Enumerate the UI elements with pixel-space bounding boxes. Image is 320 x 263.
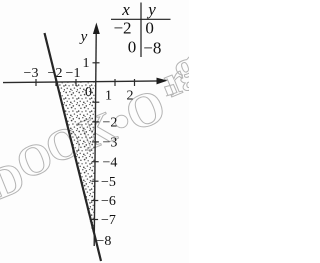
svg-text:0: 0: [145, 19, 154, 38]
y tick -1: [92, 101, 99, 103]
svg-text:−3: −3: [24, 66, 39, 81]
svg-text:−3: −3: [103, 136, 118, 151]
value table header rule: [111, 18, 171, 20]
watermark outlined text DOOK.Org: [0, 40, 204, 209]
svg-text:−7: −7: [101, 213, 116, 228]
y tick -5: [92, 180, 99, 182]
x tick -2: [55, 79, 57, 86]
svg-text:y: y: [146, 0, 156, 19]
svg-text:−5: −5: [101, 175, 116, 190]
y tick -6: [91, 200, 98, 202]
svg-text:2: 2: [127, 89, 134, 104]
y tick -7: [91, 219, 98, 221]
x tick -1: [75, 79, 77, 86]
x tick 1: [114, 79, 116, 86]
value table column divider: [140, 3, 142, 58]
svg-text:0: 0: [128, 38, 137, 57]
y tick 1: [93, 62, 100, 64]
x-axis arrowhead: [157, 78, 168, 85]
x tick -3: [35, 79, 37, 86]
svg-text:y: y: [79, 29, 88, 45]
svg-text:−1: −1: [66, 66, 81, 81]
x-axis: [3, 81, 162, 83]
svg-text:−4: −4: [103, 155, 118, 170]
y-axis arrowhead: [93, 23, 100, 35]
y tick -3: [92, 141, 99, 143]
shaded region (stippled triangle between line, x-axis and y-axis): [57, 83, 96, 241]
svg-text:−8: −8: [97, 234, 112, 249]
small watermark fragment below x-arrow: [165, 85, 178, 97]
svg-text:1: 1: [105, 89, 112, 104]
svg-text:−8: −8: [143, 39, 161, 58]
svg-text:1: 1: [83, 56, 90, 71]
svg-text:−6: −6: [101, 194, 116, 209]
svg-text:−2: −2: [103, 116, 118, 131]
y-axis: [94, 25, 96, 246]
svg-text:−2: −2: [113, 19, 131, 38]
x tick 2: [134, 79, 136, 86]
graphed line through (-2,0) and (0,-8): [45, 33, 102, 261]
svg-text:x: x: [121, 0, 130, 19]
svg-text:0: 0: [85, 85, 92, 100]
y tick -4: [92, 161, 99, 163]
y tick -2: [92, 121, 99, 123]
